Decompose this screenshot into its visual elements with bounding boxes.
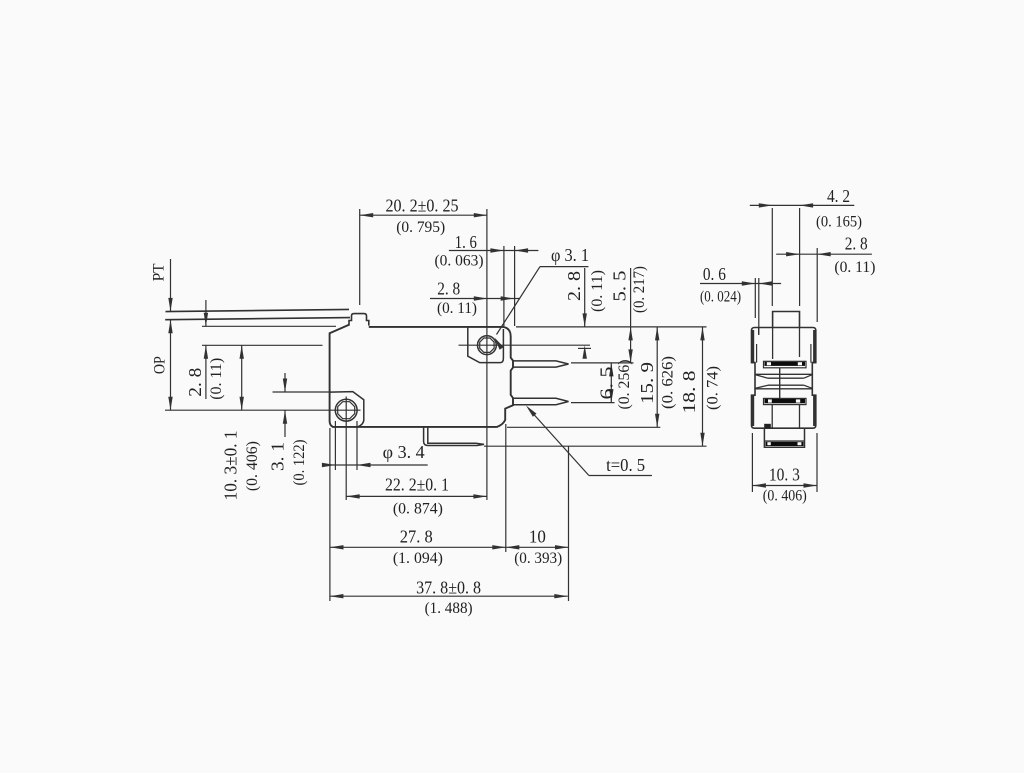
svg-text:(0. 11): (0. 11) — [589, 270, 606, 312]
extension line: top hole centerline, right — [459, 344, 591, 346]
dimension 5.5 — [628, 268, 632, 363]
dimension 37.8+-0.8 — [330, 594, 568, 598]
svg-text:(0. 406): (0. 406) — [244, 441, 261, 491]
svg-text:(0. 165): (0. 165) — [816, 213, 862, 230]
end view: lower inner box — [772, 405, 799, 429]
leader line phi3.1 — [495, 267, 589, 350]
svg-text:(0. 393): (0. 393) — [514, 550, 562, 567]
extension line: hole center vertical (20.2 ref / 22.2 ref) — [486, 209, 488, 500]
svg-text:22. 2±0. 1: 22. 2±0. 1 — [385, 474, 449, 494]
dimension 27.8 — [330, 545, 506, 549]
extension lines for 0.6 — [755, 278, 759, 335]
end view: body outline with waist — [752, 328, 816, 429]
dimension 10.3 — [752, 483, 817, 487]
extension line: left hole left edge — [334, 421, 336, 470]
dimension 1.6 line with outside arrows — [449, 248, 539, 252]
svg-text:(0. 626): (0. 626) — [660, 356, 677, 409]
end view: bottom foot — [764, 428, 804, 447]
extension line for 2.8 (body right edge) — [816, 248, 818, 322]
svg-text:(0. 024): (0. 024) — [700, 289, 741, 306]
end view: plunger sides inside body — [773, 328, 800, 360]
lever hinge clip bump on body top — [349, 314, 369, 326]
svg-text:0. 6: 0. 6 — [703, 264, 726, 284]
extension line: body top, right side — [516, 326, 707, 328]
dimension 10 — [506, 545, 569, 549]
svg-text:2. 8: 2. 8 — [185, 368, 205, 397]
dimension phi3.4 line with outside arrows — [322, 463, 428, 467]
mounting hole phi3.4 (bottom-left) — [335, 399, 357, 421]
extension line: top hole centerline, left — [202, 344, 323, 346]
svg-text:(0. 063): (0. 063) — [435, 252, 484, 269]
svg-text:2. 8: 2. 8 — [564, 271, 584, 301]
svg-text:3. 1: 3. 1 — [268, 442, 288, 471]
svg-text:t=0. 5: t=0. 5 — [606, 455, 645, 475]
svg-text:27. 8: 27. 8 — [400, 527, 433, 547]
extension line: body bottom, right — [507, 426, 660, 428]
dimension 15.9 — [655, 327, 659, 427]
svg-text:4. 2: 4. 2 — [827, 186, 850, 206]
extension line: terminal 1 tip level — [571, 362, 634, 364]
svg-text:OP: OP — [152, 356, 169, 374]
svg-text:(0. 122): (0. 122) — [291, 440, 308, 486]
extension line: hinge center vertical (20.2 left ref) — [359, 209, 361, 305]
svg-text:(0. 874): (0. 874) — [393, 500, 443, 517]
dimension PT (pre-travel) — [168, 259, 172, 333]
dimension 10.3+-0.1 — [240, 345, 244, 410]
mounting hole phi3.1 (top-right) — [478, 336, 497, 355]
svg-text:1. 6: 1. 6 — [455, 232, 477, 252]
dimension OP (operating position) — [168, 320, 172, 411]
dimension 2.8 left with outside arrows — [204, 300, 208, 399]
svg-text:10. 3±0. 1: 10. 3±0. 1 — [221, 430, 241, 500]
extension line: mounting tab top edge — [273, 391, 332, 393]
end view: plunger button — [773, 312, 800, 328]
svg-text:(1. 488): (1. 488) — [425, 600, 473, 617]
svg-text:37. 8±0. 8: 37. 8±0. 8 — [416, 577, 481, 597]
extension line: body right edge down — [505, 424, 507, 552]
extension lines for 10.3 width — [752, 433, 817, 492]
leader line t=0.5 — [526, 406, 652, 476]
svg-text:(0. 11): (0. 11) — [437, 300, 477, 317]
dimension 6.5 — [609, 363, 613, 403]
end view: terminal bar 2 (end-on) — [764, 398, 807, 404]
dimension 18.8 — [700, 327, 704, 446]
extension line: left hole center vertical — [345, 397, 347, 501]
svg-text:(1. 094): (1. 094) — [393, 550, 443, 567]
end view: step shelf lines — [752, 363, 816, 396]
dimension 4.2 with outside arrows — [750, 203, 855, 207]
dimension 20.2+-0.25 line with arrows — [360, 213, 488, 217]
dimension 3.1 with outside arrows — [283, 373, 287, 437]
svg-text:φ 3. 4: φ 3. 4 — [383, 442, 425, 462]
dimension 22.2+-0.1 — [346, 494, 487, 498]
terminal 2 (middle) blade — [513, 398, 569, 404]
svg-text:15. 9: 15. 9 — [637, 362, 657, 404]
dimension 0.6 with outside arrows — [700, 281, 781, 285]
extension line: bottom hole centerline through body — [165, 409, 361, 411]
svg-text:2. 8: 2. 8 — [437, 278, 460, 298]
extension line: left hole right edge — [356, 421, 358, 470]
extension line: body top, left side — [202, 325, 336, 327]
extension lines for 4.2 (button width) — [772, 208, 799, 306]
extension line: terminal 2 tip level — [571, 402, 615, 404]
svg-text:(0. 217): (0. 217) — [631, 266, 648, 313]
extension line: bent terminal bottom level — [484, 445, 707, 447]
end view: thick side walls shading — [753, 330, 815, 426]
switch body outline (side view) — [330, 325, 513, 427]
terminal 3 (bent down-leg) — [424, 427, 484, 446]
svg-text:2. 8: 2. 8 — [845, 234, 868, 254]
svg-text:PT: PT — [150, 263, 167, 281]
end view: terminal bar 3 (end-on) — [764, 441, 804, 446]
extension line: body right edge vertical — [514, 246, 516, 326]
end view: small dark block bottom-left — [764, 424, 771, 428]
svg-text:(0. 406): (0. 406) — [763, 488, 807, 505]
svg-text:5. 5: 5. 5 — [609, 271, 629, 302]
extension line: body corner start vertical — [503, 246, 505, 326]
dimension 2.8 end view with outside arrows — [776, 252, 872, 256]
terminal 1 (top, COM) blade — [513, 361, 569, 367]
svg-text:(0. 795): (0. 795) — [396, 219, 445, 236]
svg-text:10: 10 — [529, 527, 546, 547]
svg-text:φ 3. 1: φ 3. 1 — [551, 245, 589, 265]
svg-text:20. 2±0. 25: 20. 2±0. 25 — [386, 195, 459, 215]
boss around top-right hole — [468, 327, 504, 363]
svg-text:(0. 256): (0. 256) — [616, 360, 633, 410]
svg-text:10. 3: 10. 3 — [769, 464, 800, 484]
svg-text:(0. 11): (0. 11) — [208, 358, 225, 400]
lever arm (long hinge lever, free position) — [165, 309, 350, 319]
end view: waist groove drum — [755, 374, 812, 389]
mounting boss around bottom-left hole — [330, 392, 364, 427]
extension line: terminal tips down — [568, 446, 570, 601]
extension line: body left edge down — [329, 428, 331, 601]
dimension 2.8 (top) line with arrows — [430, 296, 520, 300]
end view: terminal bar 1 (end-on) — [764, 361, 807, 368]
svg-text:6. 5: 6. 5 — [596, 367, 616, 400]
dimension 2.8 right vertical — [578, 268, 591, 359]
svg-text:18. 8: 18. 8 — [679, 371, 699, 414]
end view: inner lip lines top — [757, 328, 811, 363]
svg-text:(0. 74): (0. 74) — [705, 366, 722, 410]
svg-text:(0. 11): (0. 11) — [834, 259, 875, 276]
end view: center line between bars — [779, 368, 781, 399]
